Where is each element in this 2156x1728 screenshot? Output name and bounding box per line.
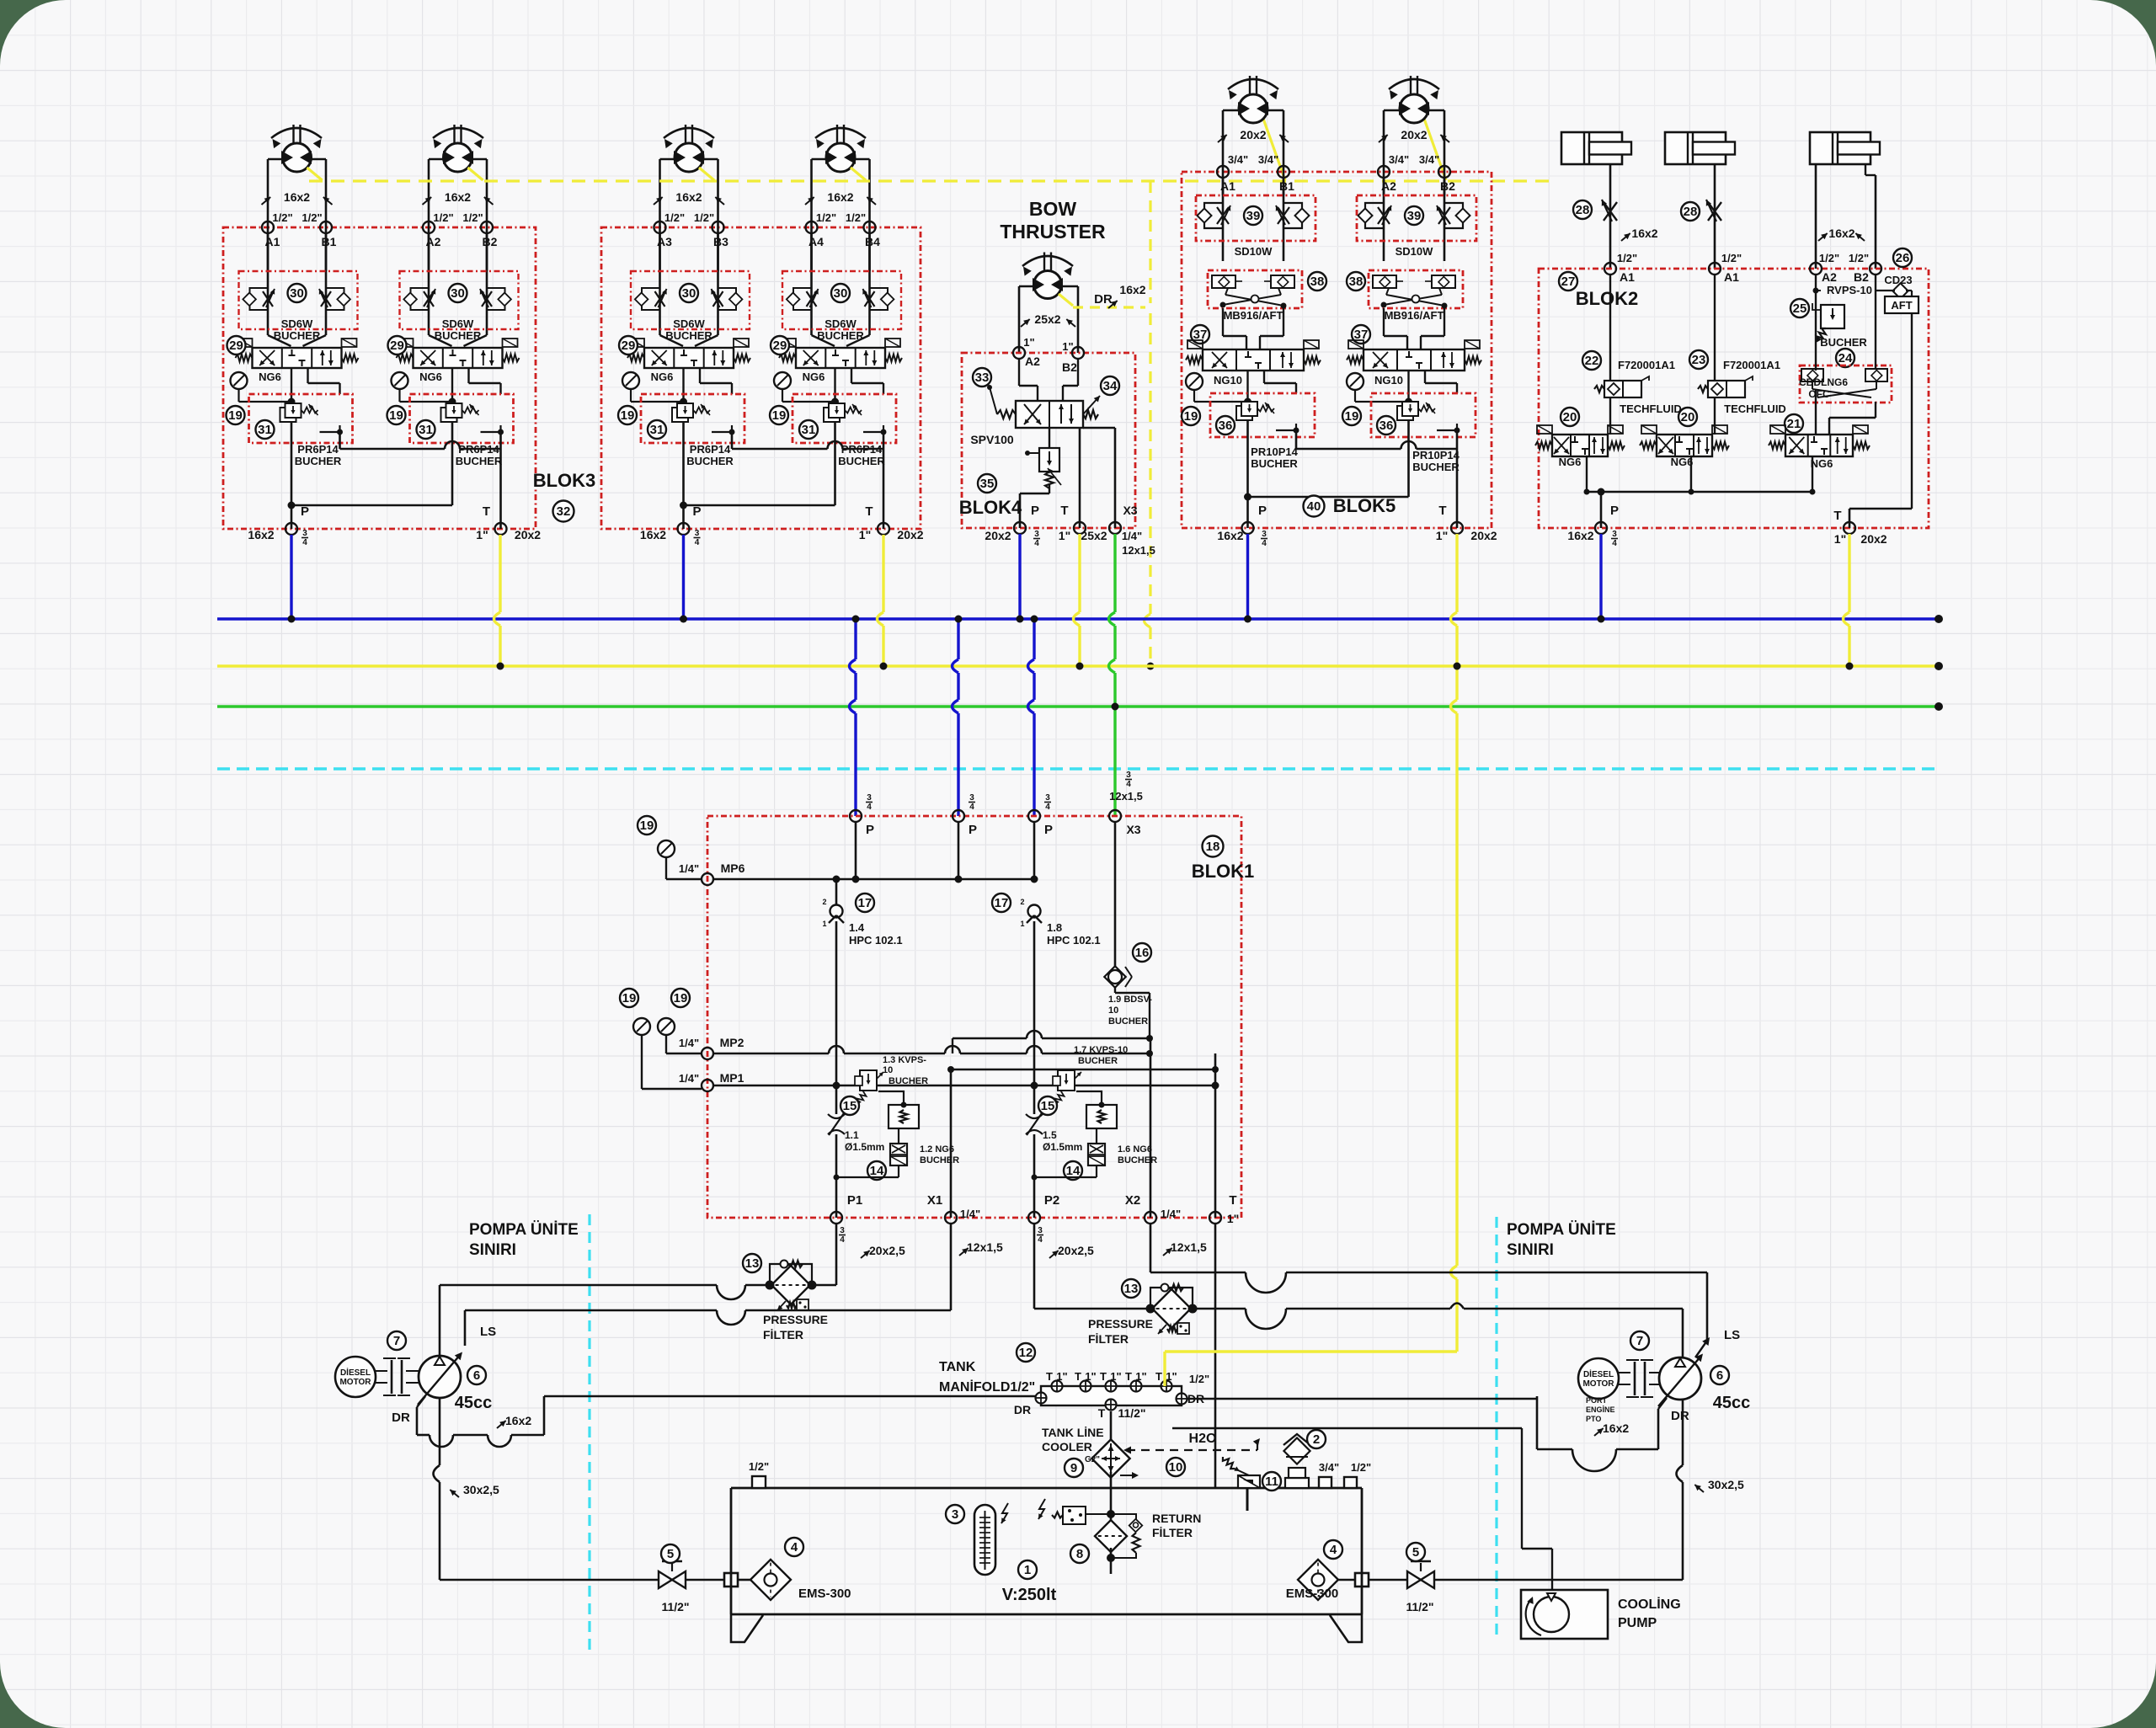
svg-text:FİLTER: FİLTER: [1152, 1526, 1193, 1539]
svg-text:1.1: 1.1: [845, 1129, 859, 1141]
svg-text:16x2: 16x2: [1631, 227, 1657, 240]
svg-text:31: 31: [802, 423, 816, 437]
svg-text:T: T: [1833, 509, 1841, 523]
hydraulic motor at x=1679: [1410, 76, 1412, 96]
pipes to flow control: [267, 233, 269, 335]
svg-text:24: 24: [1838, 351, 1853, 365]
svg-text:1/2": 1/2": [272, 211, 292, 224]
directional control valve: [1785, 435, 1853, 456]
gauges MP2 MP1: [620, 989, 638, 1007]
relief valve 35: [1049, 428, 1050, 448]
flow control valve: [642, 288, 660, 310]
variable displacement pump 45cc: [1659, 1357, 1701, 1400]
svg-text:DİESEL: DİESEL: [340, 1367, 371, 1378]
svg-text:POMPA ÜNİTE: POMPA ÜNİTE: [1507, 1221, 1616, 1239]
svg-text:NG6: NG6: [651, 371, 674, 383]
svg-text:10: 10: [883, 1065, 893, 1075]
motor drain tap: [699, 168, 714, 180]
svg-text:29: 29: [622, 339, 636, 353]
solenoid valve NG6: [1088, 1144, 1105, 1165]
pressure gauge: [622, 372, 639, 389]
svg-text:PUMP: PUMP: [1618, 1616, 1657, 1630]
svg-text:20x2: 20x2: [897, 528, 923, 541]
SD10W flow control block (red): [1196, 195, 1315, 241]
shuttle crossing wires: [1225, 288, 1228, 295]
svg-text:45cc: 45cc: [1713, 1394, 1751, 1412]
svg-text:Ø1.5mm: Ø1.5mm: [1043, 1141, 1082, 1153]
wire DR to manifold (y=1658): [544, 1395, 1041, 1398]
flow restrictor 28 on cyl2: [1708, 202, 1721, 221]
svg-text:1/2": 1/2": [816, 211, 836, 224]
svg-text:COOLİNG: COOLİNG: [1618, 1597, 1681, 1612]
svg-text:X1: X1: [927, 1193, 942, 1208]
wire MP1 rail: [713, 1085, 861, 1087]
wire X bus (green): [217, 705, 1939, 707]
check valve: [1028, 905, 1041, 918]
svg-text:3: 3: [1126, 771, 1131, 780]
svg-text:A1: A1: [1620, 270, 1635, 284]
svg-text:16x2: 16x2: [675, 190, 702, 204]
pipes: [1018, 359, 1020, 386]
motor drain tap: [468, 168, 483, 180]
svg-text:6: 6: [1716, 1368, 1723, 1383]
pipes into valve: [429, 335, 452, 346]
svg-text:G2": G2": [1085, 1455, 1100, 1464]
pressure gauge: [658, 840, 675, 857]
svg-text:T: T: [1075, 1370, 1081, 1383]
circled 18 BLOK1 label: [1203, 836, 1224, 857]
svg-text:3: 3: [1034, 530, 1039, 539]
svg-text:BUCHER: BUCHER: [1078, 1056, 1118, 1066]
svg-text:POMPA ÜNİTE: POMPA ÜNİTE: [469, 1221, 579, 1239]
PR10P14 block (red): [1210, 393, 1315, 437]
svg-text:PRESSURE: PRESSURE: [1088, 1317, 1153, 1331]
svg-text:16x2: 16x2: [1828, 227, 1854, 240]
pressure reducing valve: [1236, 406, 1252, 420]
ports P1 X1 P2 X2 T bottom: [830, 1212, 842, 1224]
hydraulic cylinder: [1561, 132, 1622, 164]
svg-text:NG6: NG6: [803, 371, 825, 383]
svg-text:BUCHER: BUCHER: [1108, 1016, 1148, 1027]
manifold T port: [1081, 1381, 1091, 1392]
svg-text:NG6: NG6: [419, 371, 442, 383]
svg-text:2: 2: [822, 898, 826, 906]
pressure gauge: [774, 372, 791, 389]
svg-text:MOTOR: MOTOR: [1582, 1379, 1614, 1389]
motor pipes: [1383, 110, 1385, 195]
svg-text:19: 19: [622, 991, 637, 1005]
block outline (red): [962, 353, 1135, 528]
svg-text:19: 19: [674, 991, 688, 1005]
svg-text:RETURN: RETURN: [1152, 1512, 1201, 1525]
ports A1 B1: [262, 221, 274, 233]
ports on BLOK2 top: [1604, 263, 1616, 275]
svg-text:FİLTER: FİLTER: [1088, 1332, 1129, 1346]
circled 24 + CBDL block (red): [1836, 349, 1854, 367]
circled 21 big NG6: [1785, 414, 1803, 433]
svg-text:V:250lt: V:250lt: [1002, 1586, 1057, 1604]
svg-text:19: 19: [1184, 409, 1198, 424]
svg-text:A2: A2: [1822, 270, 1837, 284]
motor pipes: [659, 159, 661, 271]
pipes to NG10: [1383, 308, 1385, 336]
wire T collector: [339, 432, 341, 449]
svg-text:10: 10: [1108, 1005, 1118, 1016]
svg-text:3/4": 3/4": [1258, 153, 1278, 166]
wire LS line left (y=1556): [465, 1309, 717, 1312]
pressure switch on return: [1063, 1507, 1086, 1524]
svg-text:3/4": 3/4": [1228, 153, 1248, 166]
hydraulic cylinder: [1810, 132, 1870, 164]
svg-text:P: P: [969, 823, 977, 837]
svg-text:6: 6: [473, 1368, 480, 1383]
tank port 1/2 left: [752, 1476, 766, 1488]
wire drain to DR (yellow): [1059, 294, 1073, 306]
gauge MP6: [638, 816, 656, 835]
shut-off valve: [659, 1571, 672, 1588]
svg-text:PTO: PTO: [1586, 1415, 1601, 1423]
circled 37 labels: [1191, 325, 1209, 344]
svg-text:16x2: 16x2: [505, 1414, 531, 1427]
svg-text:T: T: [483, 504, 490, 519]
SD6W flow control block (red): [400, 271, 519, 329]
pressure filter: [1150, 1288, 1193, 1309]
PR drain line: [883, 425, 884, 432]
svg-text:11/2": 11/2": [1118, 1406, 1145, 1420]
svg-text:SINIRI: SINIRI: [1507, 1241, 1554, 1259]
wire boundary bus (cyan dashed): [217, 767, 1939, 770]
svg-text:16x2: 16x2: [445, 190, 471, 204]
svg-text:B2: B2: [1854, 270, 1869, 284]
pressure gauge: [1186, 373, 1203, 390]
filler breather 2: [1285, 1478, 1309, 1488]
svg-text:MP6: MP6: [721, 861, 745, 875]
svg-text:20x2: 20x2: [1401, 128, 1427, 141]
svg-text:16x2: 16x2: [827, 190, 853, 204]
svg-text:1/2": 1/2": [1721, 252, 1742, 264]
SPV100 proportional valve: [1016, 401, 1083, 428]
suction strainer EMS-300: [750, 1560, 791, 1600]
svg-text:F720001A1: F720001A1: [1723, 359, 1780, 371]
pressure gauge: [658, 1018, 675, 1035]
svg-text:4: 4: [302, 538, 307, 547]
svg-text:1/4": 1/4": [679, 1037, 699, 1049]
svg-text:1": 1": [1023, 336, 1034, 349]
wire DR right to manifold: [1182, 1398, 1537, 1400]
svg-text:P: P: [301, 504, 309, 519]
port MP6: [702, 873, 713, 885]
svg-text:4: 4: [695, 538, 700, 547]
directional control valve: [1203, 349, 1304, 371]
wire P collector: [291, 423, 293, 529]
svg-text:T: T: [865, 504, 873, 519]
svg-text:33: 33: [975, 371, 990, 385]
wire BLOK3b P drop (blue): [682, 535, 685, 619]
svg-text:P: P: [1610, 504, 1619, 518]
wire P drops inside: [855, 822, 857, 879]
svg-text:DR: DR: [1014, 1403, 1031, 1416]
directional control valve: [253, 348, 342, 368]
BLOK5 outline (red): [1182, 172, 1492, 528]
wire BLOK4 P drop (blue): [1018, 534, 1021, 619]
svg-text:19: 19: [621, 408, 635, 423]
port P: [286, 523, 297, 535]
svg-text:1": 1": [1436, 529, 1448, 542]
svg-text:BLOK1: BLOK1: [1192, 861, 1255, 882]
motor pipes: [267, 159, 269, 271]
wire DR dashed vertical: [1149, 181, 1151, 303]
svg-text:31: 31: [419, 423, 433, 437]
PR drain line: [731, 425, 733, 432]
wire P2 column: [1033, 822, 1036, 879]
flow restrictor 28 on cyl1: [1604, 202, 1617, 221]
PR6P14 pressure reducing block (red): [641, 394, 744, 443]
BLOK1 outline (red): [707, 816, 1241, 1218]
svg-text:1": 1": [1110, 1370, 1121, 1383]
shuttle crossing wires: [1386, 288, 1389, 295]
svg-text:20x2: 20x2: [515, 528, 541, 541]
svg-text:NG10: NG10: [1374, 374, 1403, 387]
svg-text:MOTOR: MOTOR: [339, 1378, 371, 1387]
svg-text:TANK LİNE: TANK LİNE: [1042, 1426, 1104, 1439]
svg-text:THRUSTER: THRUSTER: [1000, 221, 1106, 243]
check valves 17 HPC102.1: [856, 893, 874, 912]
pilot lever 33: [990, 387, 997, 414]
svg-text:12: 12: [1019, 1346, 1033, 1360]
directional control valve: [414, 348, 503, 368]
wire suction right: [1682, 1400, 1684, 1465]
svg-text:BUCHER: BUCHER: [1251, 457, 1298, 470]
svg-text:1.5: 1.5: [1043, 1129, 1057, 1141]
svg-text:MP1: MP1: [720, 1071, 744, 1085]
svg-text:31: 31: [650, 423, 664, 437]
svg-text:EMS-300: EMS-300: [1286, 1587, 1339, 1601]
svg-text:11/2": 11/2": [1406, 1600, 1433, 1613]
svg-text:DR: DR: [1671, 1409, 1689, 1423]
svg-text:PRESSURE: PRESSURE: [763, 1313, 828, 1326]
pilot valve KVPS-10: [860, 1070, 877, 1091]
variable displacement pump 45cc: [419, 1356, 461, 1398]
manifold DR ports: [1036, 1393, 1047, 1404]
svg-text:30x2,5: 30x2,5: [1708, 1478, 1744, 1491]
svg-text:1": 1": [859, 528, 871, 541]
svg-text:23: 23: [1692, 353, 1706, 367]
svg-text:20x2: 20x2: [1240, 128, 1266, 141]
ports A2 B2: [1378, 166, 1390, 178]
svg-text:31: 31: [258, 423, 272, 437]
svg-text:1/2": 1/2": [1351, 1461, 1371, 1474]
svg-text:1/2": 1/2": [749, 1460, 769, 1473]
wire X1 column: [950, 1069, 953, 1218]
svg-text:BUCHER: BUCHER: [838, 455, 885, 467]
svg-text:29: 29: [773, 339, 787, 353]
svg-text:19: 19: [228, 408, 243, 423]
svg-text:19: 19: [1345, 409, 1359, 424]
svg-text:30: 30: [451, 286, 465, 301]
PR drain line: [499, 425, 501, 432]
svg-text:20: 20: [1563, 410, 1577, 424]
svg-text:22: 22: [1585, 354, 1599, 368]
wire BLOK2 T drop (yellow): [1848, 534, 1850, 612]
solenoid cartridge valve BDSV-10: [1104, 966, 1125, 987]
svg-text:20: 20: [1681, 410, 1695, 424]
svg-text:1/4": 1/4": [1161, 1208, 1181, 1220]
motor drain tap: [851, 168, 866, 180]
wire MP2 rail: [713, 1053, 829, 1055]
svg-text:5: 5: [1412, 1545, 1419, 1560]
svg-text:1.4: 1.4: [849, 921, 865, 934]
svg-text:10: 10: [1169, 1460, 1183, 1475]
level switch 11: [1238, 1475, 1260, 1488]
wire T line from BLOK1 to tank: [1214, 1224, 1217, 1488]
svg-text:3: 3: [969, 793, 974, 803]
svg-text:P: P: [692, 504, 701, 519]
svg-text:PR6P14: PR6P14: [297, 443, 339, 456]
wire pump LS: [464, 1310, 467, 1346]
pipes to flow control: [810, 233, 813, 335]
svg-text:A2: A2: [1025, 355, 1040, 368]
circled 20 NG6 valves: [1561, 408, 1579, 426]
coupling: [391, 1360, 393, 1394]
svg-text:SD10W: SD10W: [1235, 245, 1273, 258]
svg-text:4: 4: [969, 803, 974, 812]
svg-text:1": 1": [1227, 1212, 1239, 1225]
svg-text:36: 36: [1219, 419, 1233, 433]
wire T column inside: [1214, 1053, 1217, 1218]
svg-text:16x2: 16x2: [284, 190, 310, 204]
PR6P14 pressure reducing block (red): [792, 394, 896, 443]
svg-text:SD6W: SD6W: [442, 317, 474, 330]
svg-text:B2: B2: [483, 235, 498, 248]
svg-text:1/4": 1/4": [679, 862, 699, 875]
directional control valve: [644, 348, 734, 368]
filter bypass check and spring: [1111, 1514, 1136, 1521]
directional control valve: [1657, 435, 1712, 456]
valve to PR pipes: [834, 368, 835, 403]
valve to PR pipes: [291, 368, 292, 403]
svg-text:DR: DR: [392, 1411, 410, 1425]
svg-text:P: P: [1044, 823, 1053, 837]
svg-text:20x2: 20x2: [985, 529, 1011, 542]
svg-text:PR10P14: PR10P14: [1251, 445, 1298, 458]
svg-text:1": 1": [1135, 1370, 1146, 1383]
svg-text:BOW: BOW: [1029, 198, 1077, 220]
valve-PR pipes: [1246, 371, 1248, 403]
check valve: [830, 905, 843, 918]
shuttle wires: [1812, 381, 1813, 389]
flow control valve: [793, 288, 812, 310]
svg-text:12x1,5: 12x1,5: [1122, 544, 1155, 557]
hydraulic cylinder: [1665, 132, 1726, 164]
wires to ports: [1049, 483, 1050, 493]
hydraulic motor at x=998: [836, 125, 838, 145]
wire MP6 rail: [713, 878, 1034, 880]
svg-text:8: 8: [1076, 1547, 1083, 1561]
circled 1 V:250lt: [1018, 1560, 1037, 1579]
svg-text:20x2,5: 20x2,5: [869, 1244, 905, 1257]
svg-text:1: 1: [822, 920, 826, 928]
svg-text:BLOK2: BLOK2: [1576, 288, 1639, 309]
svg-text:20x2: 20x2: [1860, 532, 1886, 546]
svg-text:16x2: 16x2: [640, 528, 666, 541]
ports A2 B2: [1013, 347, 1025, 359]
wire BLOK2 P drop (blue): [1599, 534, 1602, 619]
circled 27 BLOK2 label: [1559, 272, 1577, 291]
svg-text:1/2": 1/2": [462, 211, 483, 224]
svg-text:ENGİNE: ENGİNE: [1586, 1405, 1615, 1414]
svg-text:3: 3: [1045, 793, 1050, 803]
flow control valve: [250, 288, 269, 310]
svg-text:1/2": 1/2": [1819, 252, 1839, 264]
svg-text:38: 38: [1349, 275, 1364, 289]
svg-text:5: 5: [667, 1547, 674, 1561]
manifold bottom port T 11/2: [1106, 1400, 1117, 1411]
svg-text:13: 13: [745, 1256, 760, 1271]
svg-text:BUCHER: BUCHER: [295, 455, 342, 467]
svg-text:F720001A1: F720001A1: [1618, 359, 1675, 371]
svg-text:MANİFOLD1/2": MANİFOLD1/2": [939, 1379, 1035, 1395]
svg-text:NG6: NG6: [1811, 457, 1833, 470]
svg-text:38: 38: [1310, 275, 1325, 289]
drain: [1456, 424, 1458, 430]
wire cooler outlet arrow: [1120, 1475, 1137, 1476]
svg-text:B1: B1: [322, 235, 337, 248]
svg-text:T: T: [1155, 1370, 1162, 1383]
pipes to flow control: [659, 233, 661, 335]
svg-text:NG6: NG6: [259, 371, 281, 383]
svg-text:1.6 NG6: 1.6 NG6: [1118, 1144, 1152, 1155]
cylinder pipes down: [1609, 164, 1612, 269]
cooling pump: [1521, 1590, 1608, 1639]
SD6W flow control block (red): [782, 271, 901, 329]
svg-text:H2O: H2O: [1189, 1432, 1217, 1446]
svg-text:7: 7: [393, 1334, 400, 1348]
svg-text:P: P: [1031, 504, 1039, 518]
svg-text:1": 1": [1166, 1370, 1177, 1383]
PR10P14 block (red): [1371, 393, 1476, 437]
tank outline V:250lt: [731, 1487, 1362, 1490]
svg-text:30x2,5: 30x2,5: [463, 1483, 499, 1496]
hydraulic motor at x=1244: [1043, 253, 1045, 273]
svg-text:T: T: [1060, 504, 1068, 518]
svg-text:X3: X3: [1123, 504, 1137, 517]
suction strainer EMS-300: [1298, 1560, 1338, 1600]
wire pressure line right (y=1554): [1034, 1308, 1153, 1310]
svg-text:1/2": 1/2": [1189, 1373, 1209, 1385]
motor pipes: [1222, 110, 1225, 195]
svg-text:PR10P14: PR10P14: [1412, 449, 1460, 461]
diesel motor: [335, 1357, 376, 1397]
svg-text:BUCHER: BUCHER: [1820, 336, 1867, 349]
svg-text:3/4": 3/4": [1319, 1461, 1339, 1474]
svg-text:DR: DR: [1094, 292, 1113, 307]
solenoid valve NG6: [890, 1144, 907, 1165]
svg-text:X2: X2: [1125, 1193, 1140, 1208]
valve 16 BDSV-10: [1133, 943, 1151, 962]
svg-text:4: 4: [867, 803, 872, 812]
svg-text:HPC 102.1: HPC 102.1: [849, 934, 903, 947]
svg-text:4: 4: [1126, 780, 1131, 789]
svg-text:NG10: NG10: [1214, 374, 1242, 387]
wire suction left: [439, 1398, 441, 1465]
port P: [1242, 522, 1254, 534]
svg-text:4: 4: [1038, 1235, 1043, 1245]
svg-text:LS: LS: [1724, 1328, 1740, 1342]
hydraulic motor at x=352.5: [292, 125, 294, 145]
svg-text:2: 2: [1020, 898, 1024, 906]
svg-text:DİESEL: DİESEL: [1583, 1368, 1614, 1379]
svg-text:4: 4: [1612, 539, 1617, 548]
